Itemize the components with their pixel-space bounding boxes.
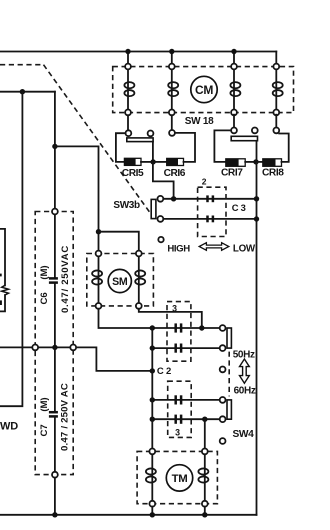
node junction bottom / TM right [202,512,207,517]
terminal SW4 contact row4 [220,416,226,422]
svg-text:C 3: C 3 [232,202,246,213]
svg-text:60Hz: 60Hz [234,386,256,397]
wire top supply bus [0,51,276,53]
cut-off mark b [0,300,2,305]
node junction CRI5/CRI6 [150,159,155,164]
wire C7 bottom lead [54,417,56,472]
wire drop bar-left to junction [152,142,154,162]
terminal SW18 contact 2 [148,131,154,137]
dashed boundary segment top-left [0,64,44,66]
terminal TM bottom-left terminal [149,501,155,507]
node junction SW3b feed [171,196,176,201]
CM winding 3 [230,69,240,109]
svg-text:SW4: SW4 [233,429,255,440]
node junction row1 / SM right [199,325,204,330]
wire junction to CRI8 [257,161,263,163]
wire stub top bus to coil L1 [127,52,129,64]
TM winding right [198,454,208,501]
svg-text:TM: TM [172,473,188,485]
rectifier CRI8 [263,159,282,167]
motor CM dashed enclosure (SW18 unit) [113,67,294,113]
terminal SW4 contact row2 [220,345,226,351]
terminal SW3b contact top [158,196,164,202]
terminal SM bottom-left terminal [96,303,102,309]
node junction top bus / L1 [125,49,130,54]
wire bank row 4 [152,418,219,420]
svg-text:C7 (M): C7 (M) [39,398,50,437]
wire bank row 2 [152,347,219,349]
wire contact1 left corner to CRI5 [116,133,126,162]
capacitor C6 plates [49,278,58,282]
node junction CRI7/CRI8 [253,159,258,164]
wire stub top bus to coil L2 [171,52,173,64]
wire feed drop to C6 node [54,92,56,147]
svg-text:CRI5: CRI5 [122,168,144,179]
capacitor C7 plates [49,412,58,416]
terminal TM bottom-right terminal [202,501,208,507]
svg-text:2: 2 [202,177,207,187]
motor CM symbol [191,76,217,102]
wire SW3b bottom contact wire to C3 [163,218,256,220]
wire mid horizontal feed [0,347,152,371]
wire C6 feed down to unit terminal [54,146,56,208]
terminal C unit left edge feedthrough [32,345,38,351]
terminal CM coil3 bottom [231,110,237,116]
svg-text:CRI8: CRI8 [262,168,284,179]
cut-off mark a [0,274,2,277]
wire SM bottom-left to mid bus [99,309,153,328]
wire tie to SM top-right [99,232,139,251]
wire feed wire entering left at y92 [0,91,55,93]
capacitor C3 dashed enclosure [198,187,226,236]
svg-text:C6 (M): C6 (M) [39,266,50,305]
svg-text:HIGH: HIGH [167,244,190,255]
motor TM symbol [166,465,192,491]
terminal SM top-right terminal [136,251,142,257]
terminal CM coil1 top [125,64,131,70]
wire C6 bottom lead [54,284,56,348]
wire TM right to bottom bus [204,507,206,515]
node junction C3 bottom / right bus [254,216,259,221]
SW18 shorting bar left [127,138,153,142]
capacitor C3 section a [208,195,213,202]
wire C6 top lead [54,214,56,277]
node junction top bus / L3 [231,49,236,54]
terminal CM coil2 bottom [169,110,175,116]
rectifier CRI6 [167,158,184,165]
CM winding 2 [168,69,178,109]
wire CRI junction drop to SW3b node [153,162,174,197]
switch SW4 lower bar [227,400,231,419]
node junction row1 / mid bus [150,325,155,330]
node junction top bus / L2 [169,49,174,54]
wire left vertical bus [0,92,22,407]
wire CRI5 to junction [141,161,153,163]
terminal SW4 contact row3 [220,397,226,403]
terminal SW4 open contact mid [220,367,226,373]
double arrow HIGH-LOW [199,243,229,251]
wire top bus corner down to CRI8 branch [275,52,277,64]
node junction C3 top / right bus [254,196,259,201]
wire drop bar-right to junction [256,141,258,162]
double arrow 50Hz-60Hz [240,359,250,383]
SW18 shorting bar right [231,136,257,140]
capacitor C3 section b [208,216,213,223]
svg-text:LOW: LOW [233,243,256,254]
SW4 mechanical link dashed [228,352,230,397]
wire bank row 3 [152,399,219,401]
capacitor bank dashed enclosure upper [167,302,191,362]
bank capacitor row3 [176,395,181,404]
terminal C7 unit bottom terminal [52,472,58,478]
capacitor bank dashed enclosure lower [168,381,192,437]
node junction SM top-left / top-right tie [96,229,101,234]
wire CRI8 corner up to contact6 [279,134,289,162]
SM winding left [92,256,102,303]
wire contact4 left corner to CRI7 [214,130,231,162]
wire C7 to bottom bus [54,478,56,515]
wire stub coil2 to contact [171,115,173,130]
node junction C6/C7 [52,345,57,350]
wire TM right feed [204,419,206,448]
wire stub coil3 to contact [233,115,235,128]
CM winding 4 [273,69,283,109]
node junction bottom / TM left [150,512,155,517]
svg-text:SW 18: SW 18 [185,116,214,127]
terminal CM coil1 bottom [125,110,131,116]
node junction row4 / mid bus [150,417,155,422]
bank capacitor row4 [176,415,181,424]
terminal SM bottom-right terminal [136,303,142,309]
terminal speed indicator circle [158,237,163,242]
svg-text:3: 3 [175,427,180,437]
motor SM dashed enclosure [87,254,154,306]
capacitor unit C6/C7 dashed enclosure [35,212,73,475]
SM winding right [135,256,145,303]
motor SM symbol [108,269,131,292]
bank capacitor row2 [176,344,181,353]
motor TM dashed enclosure [137,451,217,503]
svg-text:CM: CM [195,83,213,97]
rectifier CRI7 [226,159,245,167]
node junction bottom / C7 [52,512,57,517]
terminal TM top-left terminal [149,449,155,455]
terminal SW18 contact 1 [125,130,131,136]
switch SW4 upper bar [227,328,231,348]
CM winding 1 [124,69,134,109]
svg-text:3: 3 [172,304,177,314]
cut-off component box at left edge [0,229,5,285]
svg-text:SM: SM [112,276,128,288]
terminal SM top-left terminal [96,251,102,257]
svg-text:0.47 / 250V AC: 0.47 / 250V AC [60,383,71,451]
svg-text:SW3b: SW3b [113,200,140,211]
terminal SW18 contact 4 [231,127,237,133]
wire CRI7 to right-bus junction [245,161,256,163]
terminal SW4 contact row1 [220,325,226,331]
svg-text:CRI7: CRI7 [221,168,243,179]
wire right vertical bus [256,162,258,515]
bank capacitor row1 [176,323,181,332]
TM winding left [146,454,156,501]
svg-text:C 2: C 2 [157,366,171,377]
node junction row4 / TM right [202,417,207,422]
node junction row2 / mid bus [150,345,155,350]
wire stub top bus to coil L3 [233,52,235,64]
svg-text:CRI6: CRI6 [164,168,186,179]
wire branch to SM top [55,146,99,250]
terminal CM coil4 top [273,64,279,70]
dashed mechanical linkage diagonal to SW3b [44,65,151,214]
wire stub coil4 to contact [275,115,277,128]
terminal SW18 contact 6 [273,127,279,133]
node junction feed / left bus [20,89,25,94]
terminal SW18 contact 3 [169,130,175,136]
wire SM bottom-right over to cap row1 [139,309,202,328]
wire C7 top lead [54,347,56,411]
resistor zigzag in fragment [2,285,9,295]
wire middle vertical bus [151,328,153,449]
terminal SW4 open contact bottom [220,438,226,444]
terminal TM top-right terminal [202,449,208,455]
wire stub coil1 to contact [127,115,129,130]
terminal SW18 contact 5 [252,127,258,133]
terminal SW3b contact bottom [158,216,164,222]
node junction C6 branch / SM branch [52,144,57,149]
node junction C2 node on mid bus [150,368,155,373]
wire CRI6 corner up to contact3 [175,133,195,162]
node junction row3 / mid bus [150,397,155,402]
terminal C6 unit top terminal [52,209,58,215]
wire bank row 1 [152,327,219,329]
svg-text:0.47/ 250VAC: 0.47/ 250VAC [60,245,71,313]
terminal CM coil4 bottom [273,110,279,116]
wire TM left to bottom bus [151,507,153,515]
svg-text:FWD: FWD [0,420,18,432]
wire junction to CRI6 [153,161,167,163]
switch SW3b movable bar [151,199,156,218]
terminal CM coil2 top [169,64,175,70]
terminal C unit right edge feedthrough [70,345,76,351]
wire SW3b top contact wire to C3 [163,198,256,200]
terminal CM coil3 top [231,64,237,70]
rectifier CRI5 [124,158,141,165]
wire bottom return bus [0,514,257,516]
